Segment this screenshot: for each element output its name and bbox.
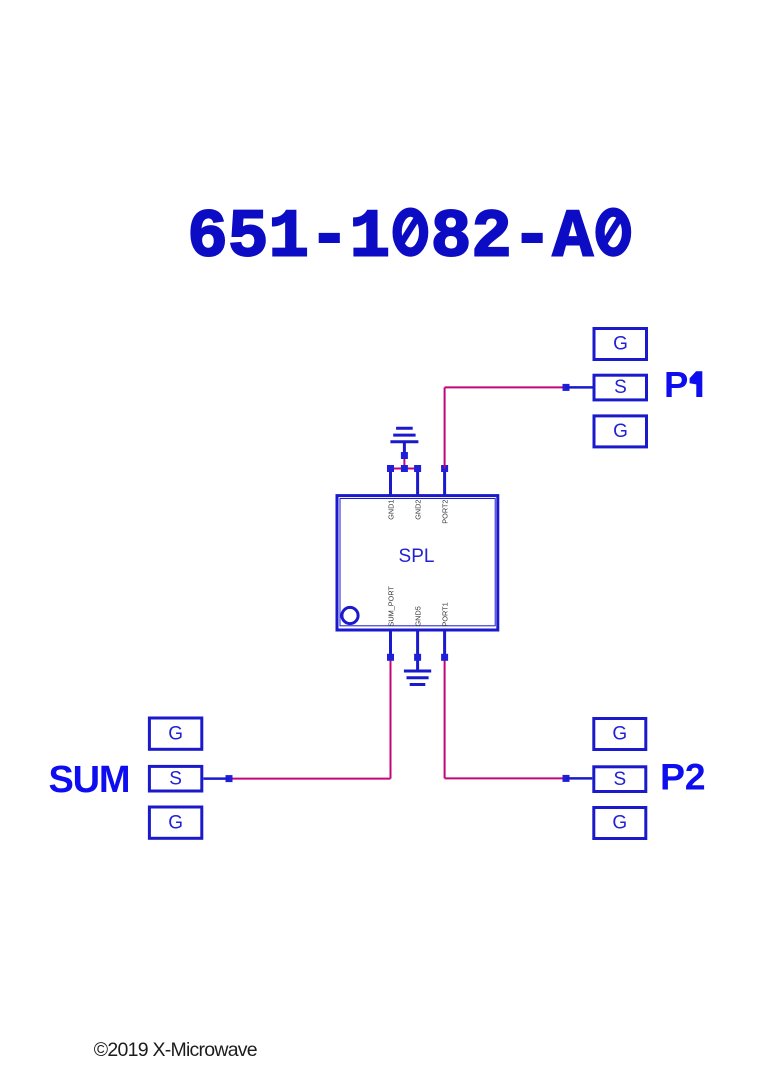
wire SUM_PORT to SUM horizontal segment bbox=[229, 778, 391, 780]
junction at pin PORT2 bbox=[441, 465, 448, 472]
junction at ground (top) bbox=[401, 452, 408, 459]
svg-text:G: G bbox=[613, 421, 628, 442]
svg-text:G: G bbox=[168, 723, 183, 744]
port P1 S pad bbox=[594, 375, 647, 400]
junction square at P1 stub bbox=[563, 384, 570, 391]
port P2 G pad (top) bbox=[594, 719, 646, 750]
junction at pin GND1 bbox=[387, 465, 394, 472]
title 651-1082-A0 bbox=[187, 201, 633, 277]
port SUM G pad (bottom) bbox=[149, 807, 201, 838]
svg-text:SUM: SUM bbox=[49, 759, 130, 801]
svg-text:P2: P2 bbox=[660, 756, 705, 798]
junction at pin SUM_PORT bbox=[387, 654, 394, 661]
wire PORT2 to P1 horizontal segment bbox=[445, 386, 566, 388]
part U1 SPL body bbox=[337, 496, 498, 630]
wire PORT1 vertical segment bbox=[444, 657, 446, 778]
svg-text:G: G bbox=[612, 724, 627, 745]
svg-text:S: S bbox=[613, 769, 626, 790]
wire ground drop to GND net bbox=[403, 456, 405, 469]
svg-text:S: S bbox=[614, 377, 627, 398]
wire PORT1 to P2 horizontal segment bbox=[445, 777, 566, 779]
svg-text:GND2: GND2 bbox=[414, 500, 423, 520]
port P1 G pad (bottom) bbox=[594, 416, 647, 447]
label P1 bbox=[664, 364, 702, 405]
svg-text:GND1: GND1 bbox=[387, 500, 396, 520]
junction square at SUM stub bbox=[226, 775, 233, 782]
stub P1 S pad bbox=[566, 386, 593, 389]
svg-text:PORT2: PORT2 bbox=[441, 500, 450, 524]
port SUM G pad (top) bbox=[149, 718, 201, 749]
port SUM S pad bbox=[149, 766, 201, 791]
ground (bottom) bbox=[404, 659, 431, 685]
pin-1 marker circle bbox=[342, 607, 358, 623]
svg-text:SPL: SPL bbox=[399, 546, 435, 567]
port P2 G pad (bottom) bbox=[594, 808, 646, 839]
svg-text:G: G bbox=[612, 813, 627, 834]
pin PORT1 bbox=[441, 602, 450, 656]
stub SUM S pad bbox=[203, 777, 229, 780]
svg-text:GND5: GND5 bbox=[414, 606, 423, 626]
pin GND2 bbox=[414, 470, 423, 520]
junction node GND net (mid) bbox=[401, 465, 408, 472]
junction square at P2 stub bbox=[563, 775, 570, 782]
svg-text:P: P bbox=[664, 364, 688, 405]
svg-text:PORT1: PORT1 bbox=[441, 602, 450, 626]
junction at pin GND5 bbox=[414, 654, 421, 661]
svg-text:G: G bbox=[168, 812, 183, 833]
pin SUM_PORT bbox=[387, 586, 396, 656]
svg-text:SUM_PORT: SUM_PORT bbox=[387, 586, 396, 627]
wire GND1 to GND2 bbox=[391, 468, 418, 470]
junction at pin PORT1 bbox=[441, 654, 448, 661]
pin PORT2 bbox=[441, 470, 450, 524]
port P2 S pad bbox=[594, 767, 646, 792]
stub P2 S pad bbox=[566, 777, 592, 780]
pin GND5 bbox=[414, 606, 423, 656]
pin GND1 bbox=[387, 470, 396, 520]
port P1 G pad (top) bbox=[594, 329, 647, 360]
ground (top) bbox=[390, 428, 418, 453]
wire PORT2 vertical segment bbox=[444, 387, 446, 468]
svg-text:G: G bbox=[613, 334, 628, 355]
junction at pin GND2 bbox=[414, 465, 421, 472]
wire SUM_PORT vertical segment bbox=[390, 657, 392, 778]
svg-text:S: S bbox=[169, 768, 182, 789]
svg-text:©2019 X-Microwave: ©2019 X-Microwave bbox=[94, 1039, 257, 1061]
